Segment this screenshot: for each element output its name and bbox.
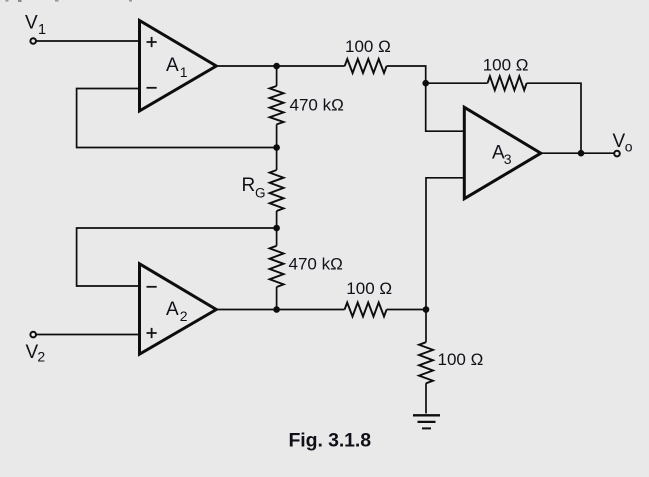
svg-text:470 kΩ: 470 kΩ bbox=[290, 96, 344, 115]
svg-text:G: G bbox=[255, 185, 266, 200]
svg-text:V: V bbox=[25, 13, 38, 34]
svg-text:A: A bbox=[166, 299, 179, 320]
svg-text:V: V bbox=[613, 131, 626, 152]
svg-text:470 kΩ: 470 kΩ bbox=[289, 255, 343, 274]
svg-text:1: 1 bbox=[38, 22, 46, 38]
svg-text:100 Ω: 100 Ω bbox=[483, 56, 529, 75]
svg-text:100 Ω: 100 Ω bbox=[345, 37, 391, 56]
svg-text:2: 2 bbox=[180, 308, 188, 324]
svg-text:o: o bbox=[625, 139, 633, 155]
svg-text:2: 2 bbox=[37, 348, 45, 364]
svg-text:3: 3 bbox=[504, 151, 512, 167]
svg-text:Fig. 3.1.8: Fig. 3.1.8 bbox=[289, 430, 372, 452]
svg-text:A: A bbox=[166, 55, 179, 76]
svg-text:1: 1 bbox=[180, 64, 188, 80]
svg-text:R: R bbox=[242, 175, 256, 196]
svg-text:100 Ω: 100 Ω bbox=[346, 279, 392, 298]
svg-text:100 Ω: 100 Ω bbox=[438, 350, 484, 369]
